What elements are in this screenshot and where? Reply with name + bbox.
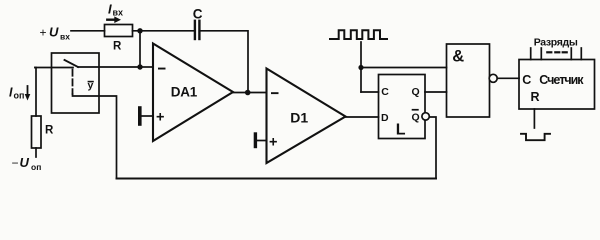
Q̄ inversion bubble — [422, 113, 429, 120]
svg-text:R: R — [113, 41, 122, 53]
svg-text:+: + — [269, 135, 277, 151]
wire clock to AND gate input — [361, 67, 447, 69]
current arrow Iоп (downward) — [25, 86, 31, 101]
svg-text:I: I — [9, 86, 13, 100]
AND output inversion bubble — [489, 74, 497, 82]
wire R to capacitor / summing node — [133, 30, 195, 32]
svg-text:Счетчик: Счетчик — [539, 73, 584, 87]
clock waveform symbol — [330, 30, 387, 39]
common (ground) symbol at D1 + input — [255, 134, 266, 147]
terminal label -Uоп — [12, 155, 42, 172]
wire counter R input down — [533, 109, 535, 128]
svg-text:D: D — [381, 112, 389, 124]
D1 inverting input mark — [271, 92, 279, 94]
AND gate box — [447, 44, 490, 117]
DA1 inverting input mark — [158, 68, 166, 70]
svg-text:L: L — [396, 122, 406, 139]
node +Uвх input terminal label — [40, 25, 71, 42]
wire Iоп node to switch contact — [35, 67, 73, 69]
ellipsis dashes between outputs — [547, 51, 566, 53]
switch box — [52, 53, 100, 113]
wire clock to flip-flop C input — [361, 91, 379, 93]
bottom rail wire (feedback from Q̄) — [117, 178, 437, 180]
wire AND gate to counter C input — [497, 77, 519, 79]
svg-text:+: + — [156, 110, 164, 126]
wire bottom rail up to Q̄ output — [429, 117, 436, 179]
wire resistor to -Uоп terminal — [35, 148, 37, 157]
counter output tick 1 — [530, 48, 532, 60]
svg-text:−: − — [12, 156, 19, 170]
resistor R (input) — [105, 25, 133, 37]
feedback wire capacitor to DA1 output — [201, 31, 248, 92]
svg-text:R: R — [531, 90, 540, 104]
current label Iоп with arrow — [9, 86, 24, 101]
svg-text:DA1: DA1 — [171, 85, 198, 100]
junction node at DA1 output — [245, 90, 251, 96]
junction node clock branch — [358, 65, 363, 70]
counter output tick 4 — [580, 48, 582, 60]
switch control dashed line — [72, 70, 74, 95]
svg-text:I: I — [108, 2, 112, 17]
svg-text:U: U — [20, 155, 30, 170]
control signal label ȳ — [88, 80, 94, 92]
svg-text:Разряды: Разряды — [534, 36, 578, 48]
junction node top (summing node tap) — [137, 28, 142, 33]
wire switch control to bottom rail — [73, 94, 117, 179]
svg-text:вх: вх — [60, 32, 70, 42]
svg-text:R: R — [45, 125, 54, 137]
junction node at DA1 inverting input — [137, 64, 142, 69]
resistor R (reference) — [32, 116, 42, 148]
wire node down to inverting input — [139, 31, 141, 67]
op-amp DA1 (integrator) — [153, 44, 233, 142]
svg-text:Q: Q — [412, 111, 420, 123]
common (ground) symbol at DA1 + input — [140, 108, 153, 124]
wire -Uоп branch up to switch — [35, 68, 36, 117]
svg-text:оп: оп — [14, 91, 25, 101]
clock wire down to C input — [360, 42, 362, 92]
current label Iвх — [108, 2, 123, 18]
svg-text:Q: Q — [412, 86, 420, 98]
svg-text:+: + — [40, 26, 47, 40]
wire D1 output to flip-flop D input — [346, 116, 379, 118]
wire +Uвх to resistor R — [71, 30, 105, 32]
counter output tick 3 — [570, 48, 572, 60]
svg-text:U: U — [49, 25, 59, 40]
svg-text:&: & — [452, 48, 464, 66]
svg-text:C: C — [522, 73, 531, 87]
current arrow Iвх — [107, 16, 121, 23]
svg-text:C: C — [381, 86, 389, 98]
svg-text:C: C — [193, 6, 203, 21]
svg-text:вх: вх — [113, 8, 124, 18]
comparator D1 — [267, 69, 346, 164]
wire summing node to DA1 inverting input — [140, 66, 153, 68]
svg-text:D1: D1 — [290, 109, 308, 125]
counter output tick 2 — [540, 48, 542, 60]
svg-text:оп: оп — [31, 162, 41, 172]
switch blade (open contact) — [65, 60, 79, 67]
counter box — [519, 60, 595, 110]
wire DA1 output to D1 inverting input — [233, 92, 267, 94]
wire Q output to AND gate input — [425, 91, 447, 93]
reset pulse symbol (negative pulse) — [521, 134, 550, 140]
wire switch output to summing junction — [78, 66, 140, 68]
flip-flop box — [379, 75, 426, 139]
capacitor C plates — [195, 21, 200, 39]
